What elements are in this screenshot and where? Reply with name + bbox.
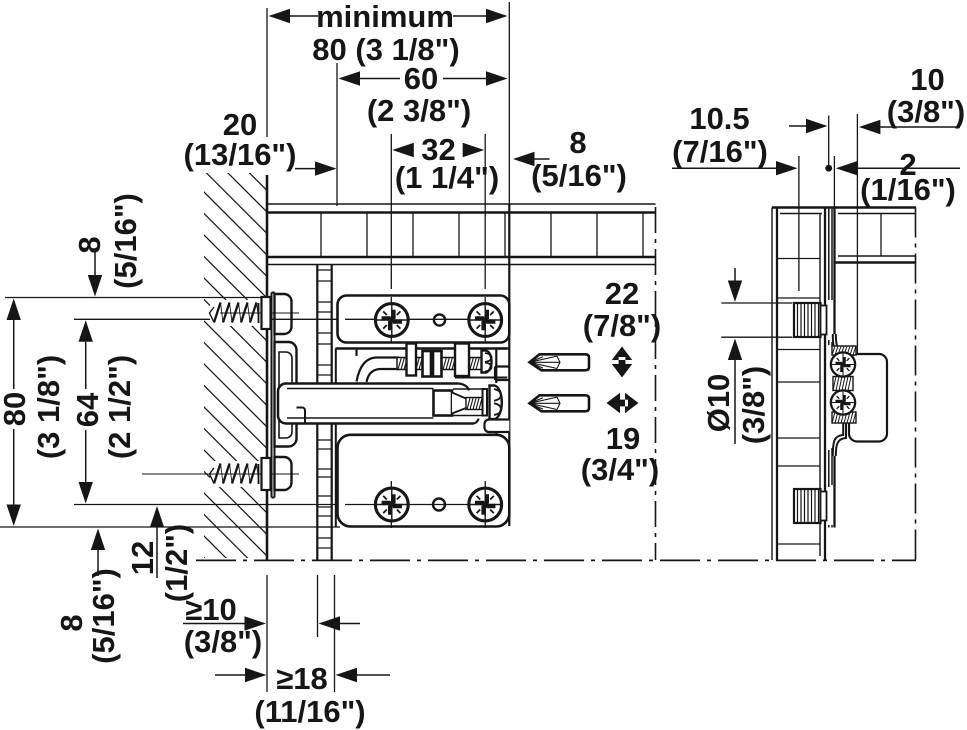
- svg-text:8: 8: [72, 236, 107, 253]
- svg-text:(1/2"): (1/2"): [159, 524, 194, 602]
- dimension >=18 (11/16"): [215, 575, 390, 729]
- side view: break line right (dash-dot vertical): [915, 208, 917, 561]
- svg-text:(3/8"): (3/8"): [736, 366, 771, 444]
- dimension 32 (1 1/4"): [392, 132, 499, 195]
- svg-text:(1 1/4"): (1 1/4"): [395, 160, 499, 195]
- bottom mounting plate: [338, 435, 510, 527]
- dimension 20 (13/16") leader: [184, 107, 337, 176]
- svg-text:10: 10: [910, 62, 944, 97]
- side view: top panel: [772, 208, 916, 263]
- bottom screw cone: [452, 393, 466, 414]
- svg-text:(3/4"): (3/4"): [581, 452, 659, 487]
- extension line A y=297.5: [5, 297, 267, 299]
- horizontal adjustment double arrow: [607, 393, 639, 413]
- top screw nut bars: [423, 351, 432, 377]
- extension line C y=504.5 screw axis: [74, 504, 506, 506]
- bottom screw head: [490, 386, 502, 420]
- wall screw 1: [210, 297, 300, 329]
- svg-text:(3 1/8"): (3 1/8"): [31, 355, 66, 459]
- bottom screw collar: [483, 389, 488, 416]
- dimension 12 (1/2"): [125, 506, 194, 602]
- dimension 10 (3/8") side: [789, 62, 965, 354]
- dimension 8 (5/16") top right: [513, 125, 627, 193]
- svg-text:≥10: ≥10: [185, 592, 237, 627]
- dimension 22 (7/8"): [583, 276, 661, 343]
- screw centre extension lines: [391, 134, 485, 343]
- svg-text:10.5: 10.5: [689, 101, 749, 136]
- wall plate bottom tab: [275, 457, 292, 490]
- break line, front view: [655, 207, 657, 560]
- side view: screw bulge: [833, 334, 846, 456]
- dimension 8 (5/16") top left: [72, 193, 143, 296]
- dimension dia 10 (3/8") dowel: [701, 268, 792, 444]
- svg-text:80: 80: [0, 392, 32, 426]
- side view: dowel top: [794, 303, 827, 337]
- dimension 10.5 (7/16"): [672, 101, 799, 291]
- svg-text:(3/8"): (3/8"): [887, 94, 965, 129]
- bottom plate small hole: [433, 499, 445, 511]
- screwdriver bit 2: [530, 395, 590, 411]
- svg-text:(5/16"): (5/16"): [86, 568, 121, 664]
- top plate screw right: [469, 304, 502, 337]
- svg-text:(11/16"): (11/16"): [254, 694, 365, 729]
- side view: rail cross rect: [849, 354, 887, 442]
- svg-text:(7/8"): (7/8"): [583, 308, 661, 343]
- top screw tab 2: [455, 344, 469, 377]
- top plate small hole: [434, 314, 445, 325]
- rail bottom notch: [485, 420, 510, 433]
- curved hook lever: [357, 349, 400, 383]
- svg-text:(1/16"): (1/16"): [860, 172, 956, 207]
- housing lower-right edge line: [455, 377, 507, 379]
- vertical adjustment double arrow: [612, 347, 632, 378]
- top screw tab 1: [407, 344, 417, 376]
- svg-text:(3/8"): (3/8"): [184, 624, 262, 659]
- extension line D y=527: [0, 526, 340, 528]
- bottom adjustment screw clamp block: [434, 391, 453, 416]
- bottom plate screw right: [469, 488, 502, 521]
- top screw head: [482, 351, 492, 373]
- bottom plate screw axis line: [345, 504, 502, 506]
- svg-text:8: 8: [54, 614, 89, 631]
- dimension 19 (3/4"): [581, 421, 659, 487]
- suspension rail, front view: [495, 204, 509, 526]
- dimension 64 (2 1/2") vertical: [70, 320, 137, 503]
- svg-text:(5/16"): (5/16"): [531, 158, 627, 193]
- cabinet back panel, front view: [317, 265, 336, 561]
- screwdriver bit 1: [530, 354, 590, 370]
- wall face line with extension above: [266, 8, 268, 137]
- svg-text:(2 3/8"): (2 3/8"): [367, 93, 471, 128]
- bottom plate screw left: [375, 488, 408, 521]
- svg-text:(7/16"): (7/16"): [672, 134, 768, 169]
- side view: adjustment screw bottom (pozidriv): [831, 390, 855, 414]
- side view: serrated clamp blocks: [832, 346, 856, 423]
- top plate screw axis line: [345, 318, 502, 320]
- svg-text:≥18: ≥18: [276, 661, 328, 696]
- dimension 80 (3 1/8") vertical: [0, 299, 66, 527]
- svg-text:(5/16"): (5/16"): [108, 193, 143, 289]
- dimension 2 (1/16"): [825, 147, 960, 207]
- svg-text:Ø10: Ø10: [701, 374, 736, 433]
- svg-text:(2 1/2"): (2 1/2"): [102, 355, 137, 459]
- svg-text:12: 12: [125, 541, 160, 575]
- wall plate base: [272, 293, 275, 498]
- side view: adjustment screw top (pozidriv): [831, 352, 855, 376]
- wall hatching: [194, 96, 278, 653]
- cabinet top panel, front view: [267, 204, 656, 265]
- bottom dash-dot line: [196, 559, 916, 561]
- side view: dowel bottom: [794, 489, 827, 523]
- wall screw 2: [142, 458, 299, 490]
- dimension minimum 80 (3 1/8"): [269, 0, 510, 204]
- top adjustment screw thread 1: [397, 358, 482, 370]
- svg-text:60: 60: [404, 61, 438, 96]
- svg-text:64: 64: [70, 392, 105, 427]
- svg-text:(13/16"): (13/16"): [184, 137, 297, 172]
- wall plate top tab: [275, 294, 292, 334]
- svg-text:19: 19: [606, 421, 640, 456]
- side view: back panel strip: [772, 208, 825, 561]
- wall plate body: [275, 342, 297, 447]
- svg-text:22: 22: [605, 276, 639, 311]
- svg-text:8: 8: [569, 125, 586, 160]
- side view: hanger plate verticals: [829, 208, 835, 528]
- extension line B y=319.3 screw axis: [74, 318, 506, 320]
- top mounting plate: [338, 296, 510, 343]
- bottom screw thread: [466, 398, 484, 410]
- dimension 8 (5/16") bottom left: [54, 529, 121, 664]
- hanger arm: [278, 384, 470, 424]
- dimension >=10 (3/8"): [183, 575, 360, 692]
- svg-text:minimum: minimum: [316, 0, 454, 34]
- housing top edge line: [336, 347, 508, 349]
- top plate screw left: [375, 304, 408, 337]
- dimension 60 (2 3/8"): [337, 61, 508, 206]
- bottom screw centre lines: [391, 481, 485, 528]
